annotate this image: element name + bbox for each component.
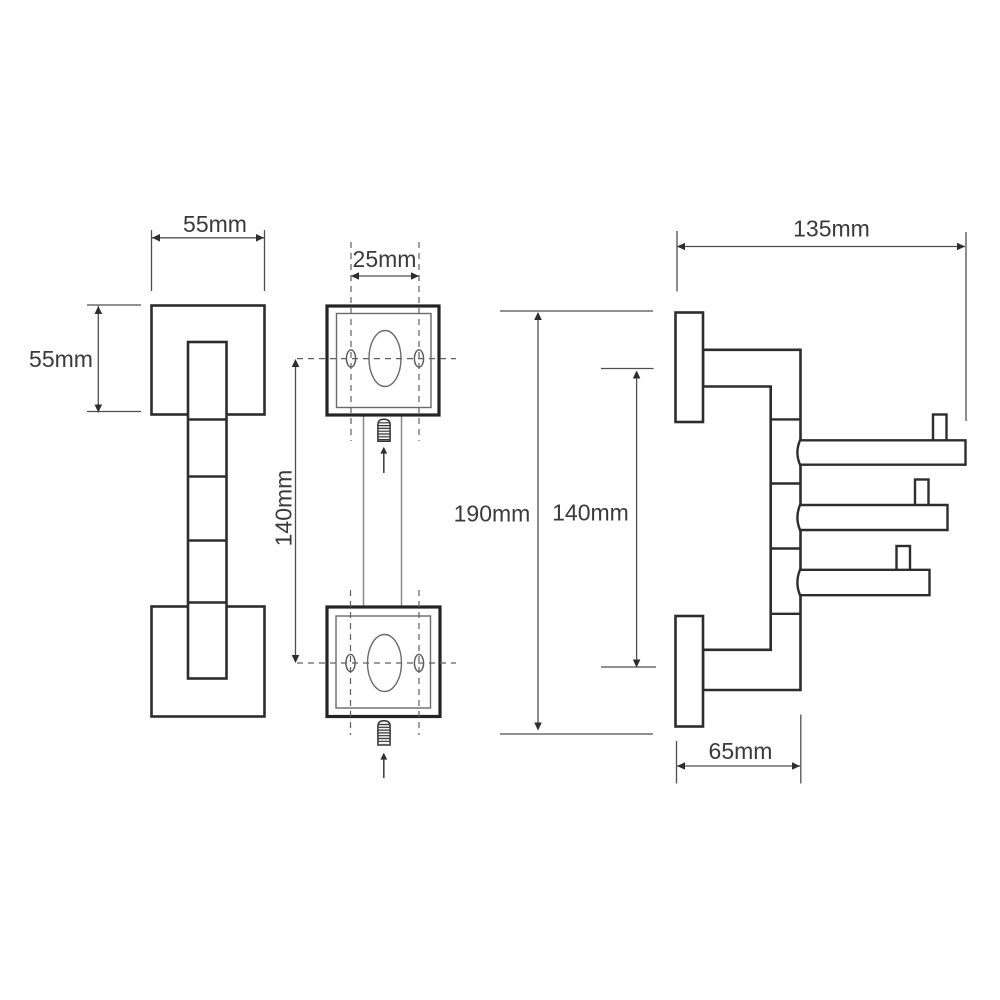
bar joints [188, 420, 227, 603]
svg-text:190mm: 190mm [454, 501, 531, 527]
wall plates [676, 313, 704, 423]
column joints [771, 419, 801, 613]
65mm dim [677, 715, 801, 784]
body silhouette [703, 350, 801, 690]
svg-text:65mm: 65mm [709, 738, 773, 764]
hook arm 3 [897, 546, 911, 572]
svg-text:55mm: 55mm [29, 346, 93, 372]
bottom plate [327, 607, 440, 717]
55mm vertical dim line [97, 306, 99, 413]
55mm vertical dim extension lines [87, 305, 141, 412]
hook arm 1 [933, 415, 947, 443]
svg-text:55mm: 55mm [183, 211, 247, 237]
190mm dim [500, 311, 653, 734]
bar side lines [364, 415, 402, 607]
135mm dim [677, 231, 966, 421]
svg-text:140mm: 140mm [271, 470, 297, 547]
screw arrows [383, 453, 385, 473]
svg-text:25mm: 25mm [353, 246, 417, 272]
55mm horizontal dim line [152, 237, 264, 239]
hook arm 2 [915, 480, 929, 508]
dashed centerlines [297, 242, 456, 735]
55mm horizontal dim extension lines [152, 230, 265, 291]
25mm dim [351, 275, 419, 277]
140mm middle dim [295, 361, 297, 662]
screws [378, 419, 390, 745]
top square plate [152, 306, 265, 415]
svg-text:135mm: 135mm [793, 216, 870, 242]
top plate outer [327, 306, 439, 415]
vertical bar [188, 342, 227, 679]
140mm right dim [601, 369, 656, 668]
bottom square plate [152, 607, 265, 717]
svg-text:140mm: 140mm [552, 500, 629, 526]
